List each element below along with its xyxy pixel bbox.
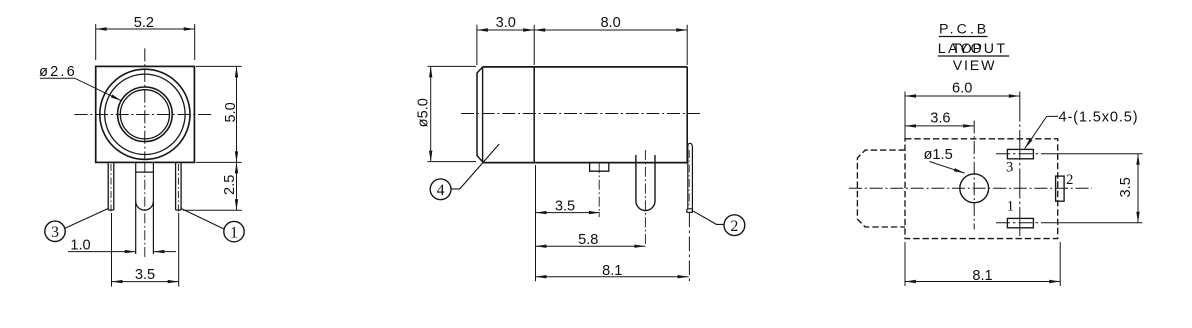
dim 3.5 text bbox=[1118, 177, 1134, 197]
svg-text:3.5: 3.5 bbox=[555, 198, 575, 214]
svg-text:6.0: 6.0 bbox=[952, 80, 972, 96]
balloon 1 bbox=[224, 221, 244, 241]
svg-text:4: 4 bbox=[437, 182, 445, 199]
dim 5.2 dimension line bbox=[96, 27, 195, 30]
dim 5.0 dimension line bbox=[235, 66, 238, 162]
barrel hidden outline bbox=[857, 150, 905, 227]
dim 3.0/8.0 extension lines bbox=[477, 25, 687, 65]
middle pin sides and 1.0 extension lines bbox=[136, 162, 154, 254]
dim 3.5 text bbox=[135, 267, 155, 283]
bore ring outer circle bbox=[118, 87, 173, 142]
bracket centerline bbox=[688, 150, 690, 205]
vertical centerline bbox=[144, 48, 146, 160]
dim 8.1 dimension line bbox=[536, 275, 689, 278]
middle pin round tip bbox=[136, 201, 154, 210]
horizontal centerline bbox=[461, 113, 700, 115]
horizontal centerline bbox=[849, 187, 1092, 189]
svg-text:P.C.B: P.C.B bbox=[939, 22, 989, 38]
round pin bbox=[636, 155, 655, 211]
tab centerline bbox=[598, 163, 600, 217]
svg-text:VIEW: VIEW bbox=[953, 58, 996, 74]
horizontal centerline bbox=[75, 114, 213, 116]
dim 3.5 extension lines bbox=[112, 213, 179, 287]
dim 8.1 right extension line bbox=[688, 213, 690, 285]
pads vertical centerline bbox=[1019, 92, 1021, 237]
dim 3.0 text bbox=[496, 15, 516, 31]
dim 3.0 dimension line bbox=[477, 28, 534, 31]
title VIEW bbox=[953, 58, 996, 74]
svg-text:1: 1 bbox=[1007, 199, 1014, 215]
dim 8.1 dimension line bbox=[905, 280, 1060, 283]
outer barrel circle bbox=[100, 69, 190, 159]
middle pin step line bbox=[136, 171, 154, 173]
dim dia5.0 dimension line bbox=[429, 66, 432, 161]
svg-text:3: 3 bbox=[51, 224, 59, 241]
left leg bbox=[108, 162, 114, 210]
pad 2 bbox=[1056, 176, 1065, 201]
svg-text:3.0: 3.0 bbox=[496, 15, 516, 31]
dim 1.0 text bbox=[70, 237, 90, 253]
label dia 2.6 leader bbox=[40, 78, 122, 101]
dim 8.0 dimension line bbox=[534, 28, 687, 31]
dim 2.5 text bbox=[222, 175, 238, 195]
svg-text:1.0: 1.0 bbox=[70, 237, 90, 253]
pad 3 bbox=[1007, 149, 1033, 158]
pad 1 bbox=[1007, 218, 1033, 227]
dim 5.0 extension lines bbox=[196, 66, 242, 162]
svg-text:3: 3 bbox=[1006, 160, 1013, 176]
outer barrel inner rim circle bbox=[105, 74, 185, 154]
svg-text:3.5: 3.5 bbox=[1118, 177, 1134, 197]
dim dia5.0 extension lines bbox=[428, 66, 477, 161]
label dia 1.5 text bbox=[924, 147, 953, 163]
bottom tab bbox=[590, 163, 609, 172]
dim 3.6 text bbox=[930, 110, 950, 126]
pin number 3 bbox=[1006, 160, 1013, 176]
dim 2.5 dimension line bbox=[235, 162, 238, 210]
title TOP overlapped bbox=[938, 41, 1009, 57]
label dia 1.5 leader bbox=[930, 162, 965, 174]
pin number 1 bbox=[1007, 199, 1014, 215]
svg-text:5.0: 5.0 bbox=[223, 102, 239, 122]
body top edge bbox=[483, 66, 688, 68]
balloon 2 leader bbox=[692, 210, 724, 224]
dim 6.0 left extension line bbox=[904, 92, 906, 139]
dim 5.8 text bbox=[578, 232, 598, 248]
balloon 4 bbox=[430, 179, 451, 200]
dim 6.0 dimension line bbox=[905, 94, 1020, 97]
dim 5.2 extension lines bbox=[96, 24, 195, 60]
dim 5.0 text bbox=[223, 102, 239, 122]
dim 5.2 text bbox=[134, 15, 154, 31]
dim dia5.0 text bbox=[416, 98, 432, 127]
dim 3.6 dimension line bbox=[905, 124, 974, 127]
hole vertical centerline bbox=[973, 121, 975, 230]
svg-text:4-(1.5x0.5): 4-(1.5x0.5) bbox=[1059, 109, 1139, 125]
barrel/body junction line bbox=[533, 67, 535, 163]
svg-text:3.5: 3.5 bbox=[135, 267, 155, 283]
barrel front face outer edge bbox=[477, 67, 483, 162]
svg-text:ø5.0: ø5.0 bbox=[416, 98, 432, 127]
svg-text:2.5: 2.5 bbox=[222, 175, 238, 195]
svg-text:5.2: 5.2 bbox=[134, 15, 154, 31]
dim 2.5 extension line bbox=[183, 209, 242, 211]
bottom dims left extension line bbox=[535, 165, 537, 281]
balloon 3 bbox=[45, 221, 65, 241]
right bracket pin bbox=[687, 143, 693, 212]
body square bbox=[96, 66, 195, 162]
dim 3.5 dimension line bbox=[1136, 154, 1139, 223]
label 4-(1.5x0.5) text bbox=[1059, 109, 1139, 125]
dim 6.0 text bbox=[952, 80, 972, 96]
balloon 2 bbox=[724, 215, 745, 236]
balloon 4 leader bbox=[451, 144, 499, 189]
svg-text:8.0: 8.0 bbox=[600, 15, 620, 31]
body right edge bbox=[686, 67, 688, 163]
right leg centerline bbox=[177, 164, 179, 213]
svg-text:ø2.6: ø2.6 bbox=[39, 64, 77, 80]
svg-text:ø1.5: ø1.5 bbox=[924, 147, 953, 163]
pin number 2 bbox=[1066, 172, 1073, 188]
dim 1.0 dimension line with outside arrows bbox=[68, 250, 176, 253]
middle pin centerline bbox=[144, 163, 146, 258]
dim 3.5 dimension line bbox=[112, 280, 179, 283]
svg-text:2: 2 bbox=[730, 218, 738, 235]
dim 3.5 dimension line bbox=[536, 211, 600, 214]
dim 8.0 text bbox=[600, 15, 620, 31]
barrel front face inner line bbox=[482, 68, 484, 162]
svg-text:8.1: 8.1 bbox=[602, 263, 622, 279]
label dia 2.6 text bbox=[39, 64, 77, 80]
dim 8.1 extension lines bbox=[905, 242, 1060, 286]
body bottom edge bbox=[483, 162, 687, 164]
dim 3.5 text bbox=[555, 198, 575, 214]
pad 3 centerline extension bbox=[996, 153, 1143, 155]
balloon 1 leader bbox=[181, 208, 224, 229]
svg-text:5.8: 5.8 bbox=[578, 232, 598, 248]
body outline hidden rect bbox=[905, 139, 1058, 239]
label 4-(1.5x0.5) leader bbox=[1025, 116, 1058, 148]
svg-text:8.1: 8.1 bbox=[972, 268, 992, 284]
dim 8.1 text bbox=[972, 268, 992, 284]
svg-text:3.6: 3.6 bbox=[930, 110, 950, 126]
left leg centerline bbox=[110, 164, 112, 213]
dim 8.1 text bbox=[602, 263, 622, 279]
mount hole circle 1.5 bbox=[960, 174, 989, 203]
svg-text:TOP: TOP bbox=[952, 41, 983, 57]
title LAYOUT overlapped bbox=[938, 41, 1008, 57]
round pin centerline bbox=[644, 150, 646, 246]
right leg bbox=[176, 162, 182, 210]
svg-text:2: 2 bbox=[1066, 172, 1073, 188]
balloon 3 leader bbox=[65, 208, 108, 228]
pad 1 centerline extension bbox=[996, 222, 1143, 224]
bore ring inner circle (2.6 dia) bbox=[120, 90, 169, 139]
dim 5.8 dimension line bbox=[536, 245, 646, 248]
title P.C.B bbox=[939, 22, 989, 38]
svg-text:1: 1 bbox=[230, 224, 238, 241]
